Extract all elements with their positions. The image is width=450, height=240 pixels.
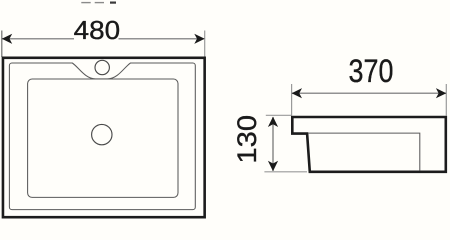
drain hole circle xyxy=(92,124,112,144)
dim 370 line xyxy=(292,92,446,94)
dim 130 line xyxy=(272,117,274,171)
dim 480 line right segment xyxy=(119,38,205,40)
dim 480 line left segment xyxy=(2,38,74,40)
top view outer rim (thick) xyxy=(3,58,205,217)
dim 130 arrow up xyxy=(268,117,278,127)
dim 130 extension line bottom xyxy=(264,171,307,173)
dim 370 extension line left xyxy=(291,84,293,116)
dim 480 arrow right xyxy=(194,34,204,44)
side profile inner rim line xyxy=(308,133,420,170)
top cropped dash 3 xyxy=(110,1,116,3)
svg-text:370: 370 xyxy=(349,54,394,90)
svg-text:130: 130 xyxy=(232,115,262,164)
svg-text:480: 480 xyxy=(74,15,121,45)
dim 480 extension line left xyxy=(1,31,3,58)
dim 480 arrow left xyxy=(2,34,12,44)
dim 370 arrow right xyxy=(436,88,446,98)
top view middle rim with front dip xyxy=(9,63,195,210)
dim 130 extension line top xyxy=(266,114,292,116)
dim 480 extension line right xyxy=(204,31,206,58)
side profile outline (thick) xyxy=(292,117,446,172)
top cropped dash 1 xyxy=(81,2,90,4)
top cropped dash 2 xyxy=(95,2,104,4)
top view inner basin xyxy=(28,79,178,197)
dim 370 extension line right xyxy=(445,84,447,116)
dim 130 arrow down xyxy=(268,161,278,171)
dim 370 arrow left xyxy=(292,88,302,98)
faucet hole circle xyxy=(95,60,109,74)
